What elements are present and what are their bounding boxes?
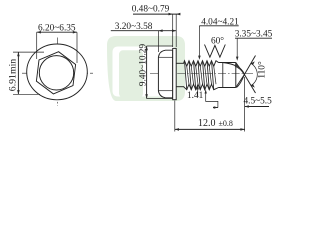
arrows 6.20 dim <box>37 31 41 34</box>
svg-text:3.20~3.58: 3.20~3.58 <box>115 22 153 32</box>
arrow 3.35 leader <box>236 57 239 61</box>
arrows 110 arc <box>251 61 255 64</box>
arrows 12.0 dim <box>175 128 179 131</box>
drill flute curve <box>223 63 245 75</box>
shank top <box>176 62 184 64</box>
drill point pilot top <box>219 62 236 64</box>
dim 6.20~6.35 ext left <box>36 32 38 59</box>
cone start edge <box>235 63 237 88</box>
dim 0.48~0.79 ext right <box>175 14 177 47</box>
dim 6.20~6.35 ext right <box>76 32 78 63</box>
60 deg thread angle zigzag <box>205 45 226 58</box>
svg-text:4.04~4.21: 4.04~4.21 <box>201 17 239 27</box>
svg-text:0.48~0.79: 0.48~0.79 <box>132 5 170 15</box>
thread bottom crest zigzag <box>184 84 219 90</box>
inner indent circle <box>39 56 73 90</box>
110 deg point angle lower line <box>244 75 255 94</box>
drill flute shaded wedge <box>235 63 244 75</box>
dim 4.5~5.5 line <box>213 107 269 108</box>
side view axis centerline <box>150 73 253 75</box>
arrows 9.40 dim <box>145 46 148 50</box>
arrow 4.5 dim left <box>214 106 218 109</box>
svg-text:6.20~6.35: 6.20~6.35 <box>38 23 76 33</box>
110 deg point angle upper line <box>244 56 255 75</box>
dim 9.40~10.29 ext top <box>147 45 173 47</box>
svg-text:60°: 60° <box>211 36 224 47</box>
svg-text:6.91min: 6.91min <box>7 59 18 91</box>
svg-text:12.0: 12.0 <box>198 118 216 129</box>
dim 6.91min ext top <box>13 51 44 53</box>
dim 4.5~5.5 / 12.0 tip ext <box>244 77 246 132</box>
point base edge <box>222 63 224 88</box>
flange outer ellipse <box>27 44 88 100</box>
svg-text:±0.8: ±0.8 <box>219 119 233 128</box>
cone top edge <box>236 63 245 75</box>
arrows 3.20 dim <box>158 29 162 32</box>
dim 9.40~10.29 line <box>146 46 148 99</box>
arrows 6.91 dim <box>17 52 20 56</box>
dim 12.0 ext left <box>174 101 176 132</box>
arrow 4.5 dim right <box>245 105 249 108</box>
dim 1.41 ext a <box>197 86 199 97</box>
front view centerline horizontal <box>22 72 93 74</box>
thread helix secondary lines <box>187 66 216 84</box>
drill point pilot bottom <box>219 87 236 89</box>
hex head side: facet line bottom <box>159 90 173 92</box>
thread top crest zigzag <box>184 61 219 66</box>
110 deg dimension arc <box>251 63 257 85</box>
dim 6.20~6.35 line <box>37 31 77 33</box>
dim 4.04~4.21 line <box>199 25 238 27</box>
dim 6.91min ext bottom <box>13 93 40 95</box>
dim 0.48~0.79 ext left <box>172 14 174 47</box>
dim 3.20~3.58 line <box>111 30 176 32</box>
thread helix flank lines <box>185 61 214 90</box>
dim 3.35~3.45 line <box>235 37 272 39</box>
svg-text:3.35~3.45: 3.35~3.45 <box>235 30 273 40</box>
dim 9.40~10.29 ext bottom <box>147 98 173 100</box>
dim 4.04~4.21 leader drop <box>198 26 200 58</box>
svg-text:9.40~10.29: 9.40~10.29 <box>138 44 148 87</box>
arrows 0.48 dim <box>169 13 173 16</box>
dim 12.0 line <box>175 128 245 130</box>
watermark logo <box>107 36 185 101</box>
washer flange side <box>173 48 177 99</box>
svg-text:4.5~5.5: 4.5~5.5 <box>244 97 273 107</box>
arrows 1.41 dim (up arrows) <box>197 86 207 94</box>
hex head side body <box>158 50 172 98</box>
dim 3.20~3.58 ext left <box>157 31 159 52</box>
dim 0.48~0.79 line <box>133 13 179 15</box>
svg-text:1.41: 1.41 <box>187 91 204 101</box>
dim 1.41 ext b with jog to point base <box>206 90 218 108</box>
dim 6.91min line <box>17 52 19 94</box>
front view centerline vertical <box>57 38 59 107</box>
cone bottom edge <box>236 75 245 88</box>
dim 3.35~3.45 leader drop <box>236 38 238 58</box>
svg-text:110°: 110° <box>257 61 268 79</box>
arrow 4.04 leader <box>198 56 201 60</box>
shank bottom <box>176 86 184 88</box>
drill flute lower curve <box>237 75 245 88</box>
hex head side: facet line top <box>159 56 173 58</box>
hexagon head front <box>36 52 75 94</box>
